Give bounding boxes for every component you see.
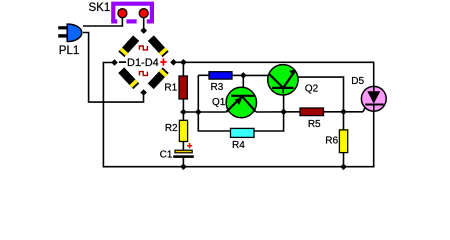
svg-text:D5: D5 xyxy=(351,76,364,87)
svg-text:PL1: PL1 xyxy=(59,45,79,57)
svg-text:R4: R4 xyxy=(232,140,245,151)
svg-text:D1-D4: D1-D4 xyxy=(127,57,159,69)
svg-text:C1: C1 xyxy=(160,150,173,161)
svg-text:Q2: Q2 xyxy=(305,83,319,94)
svg-text:R3: R3 xyxy=(211,82,224,93)
svg-text:R2: R2 xyxy=(165,123,178,134)
svg-text:SK1: SK1 xyxy=(89,2,111,14)
svg-text:Q1: Q1 xyxy=(212,97,226,108)
svg-text:R6: R6 xyxy=(325,135,338,146)
svg-text:R5: R5 xyxy=(308,119,321,130)
svg-text:R1: R1 xyxy=(164,83,177,94)
